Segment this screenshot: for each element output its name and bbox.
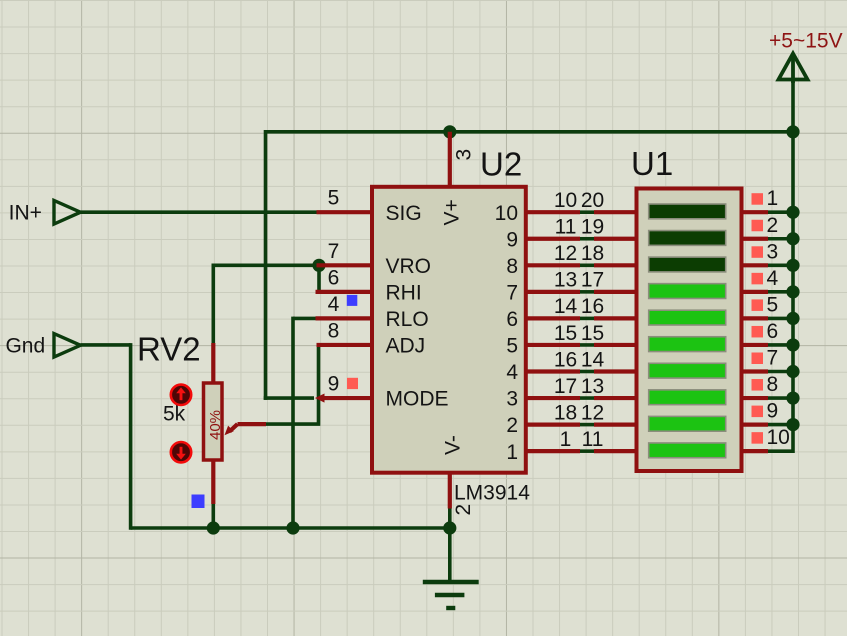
LED segment 2: [649, 231, 726, 246]
marker square blue at pin 4: [347, 295, 358, 306]
wire U2 pin row 1 to bargraph: [580, 210, 594, 214]
wire bargraph right pin 1 to rail: [768, 210, 793, 214]
wire U2 pin row 2 to bargraph: [580, 237, 594, 241]
junction dot right rail row 7: [786, 365, 799, 378]
svg-text:RV2: RV2: [137, 331, 201, 368]
wire bottom ground rail: [131, 526, 450, 530]
bargraph left pin 16 stub: [594, 316, 639, 320]
svg-text:6: 6: [506, 308, 518, 331]
svg-text:VRO: VRO: [386, 255, 432, 278]
svg-text:4: 4: [767, 267, 779, 290]
svg-text:V+: V+: [441, 199, 464, 225]
wire bargraph right pin 3 to rail: [768, 263, 793, 267]
pin L2 output stub: [526, 423, 580, 427]
junction dot right rail row 5: [786, 312, 799, 325]
wire vertical from top rail down to MODE row: [264, 130, 268, 400]
RV2 decrement button: [171, 442, 191, 462]
pin 3 V+ stub: [448, 132, 452, 187]
LED segment 6: [649, 337, 726, 352]
pin 5 SIG stub: [317, 210, 373, 214]
wire U2 pin row 8 to bargraph: [580, 396, 594, 400]
svg-text:9: 9: [328, 373, 340, 396]
svg-text:14: 14: [581, 348, 605, 371]
svg-text:Gnd: Gnd: [5, 335, 45, 358]
bargraph left pin 11 stub: [594, 449, 639, 453]
svg-text:2: 2: [452, 504, 475, 516]
bargraph left pin 19 stub: [594, 237, 639, 241]
svg-text:1: 1: [767, 187, 779, 210]
wire IN+ to SIG: [81, 210, 317, 214]
wire Gnd terminal to corner: [81, 343, 131, 347]
svg-text:U2: U2: [480, 146, 522, 183]
wire bargraph right pin 4 to rail: [768, 290, 793, 294]
pin 9 MODE stub with arrow: [322, 396, 372, 400]
svg-text:12: 12: [554, 242, 577, 265]
svg-text:10: 10: [554, 189, 577, 212]
svg-text:40%: 40%: [207, 410, 224, 440]
wire U2 pin row 10 to bargraph: [580, 449, 594, 453]
junction dot right rail row 1: [786, 206, 799, 219]
wire U2 pin row 6 to bargraph: [580, 343, 594, 347]
svg-text:18: 18: [581, 242, 604, 265]
marker square red at pin 9: [347, 378, 358, 389]
svg-text:9: 9: [506, 228, 518, 251]
wire left vertical Gnd down to bottom rail: [129, 343, 133, 530]
svg-text:6: 6: [767, 320, 779, 343]
svg-text:9: 9: [767, 400, 779, 423]
svg-text:IN+: IN+: [9, 202, 42, 225]
wire pot column vertical down to pot top pin: [212, 264, 216, 344]
junction dot right rail row 2: [786, 232, 799, 245]
bargraph right pin 7 stub: [742, 369, 769, 373]
pin L1 output stub: [526, 449, 580, 453]
svg-text:12: 12: [581, 401, 604, 424]
svg-text:+5~15V: +5~15V: [769, 29, 843, 52]
resistor RV2 body: [204, 383, 223, 460]
pin L10 output stub: [526, 210, 580, 214]
bargraph right pin 10 stub: [742, 449, 769, 453]
svg-text:6: 6: [328, 266, 340, 289]
RV2 top pin stub: [211, 343, 215, 383]
wire U2 pin row 4 to bargraph: [580, 290, 594, 294]
svg-text:4: 4: [328, 293, 340, 316]
wire right power rail vertical: [791, 81, 795, 453]
ground symbol: [423, 582, 479, 608]
wire VRO-RHI jog: [317, 265, 321, 292]
wire RLO stub link: [293, 317, 316, 321]
marker square pin 3: [752, 246, 764, 257]
svg-text:14: 14: [554, 295, 578, 318]
svg-text:5: 5: [328, 187, 340, 210]
svg-text:LM3914: LM3914: [454, 482, 530, 505]
terminal Gnd: [54, 334, 81, 357]
pin 4 RLO stub: [316, 316, 373, 320]
svg-text:7: 7: [506, 281, 518, 304]
svg-text:10: 10: [495, 202, 518, 225]
pin L8 output stub: [526, 263, 580, 267]
svg-text:8: 8: [328, 319, 340, 342]
svg-text:19: 19: [581, 216, 604, 239]
bargraph right pin 8 stub: [742, 396, 769, 400]
svg-text:20: 20: [581, 189, 604, 212]
svg-text:MODE: MODE: [386, 388, 449, 411]
svg-text:8: 8: [506, 255, 518, 278]
svg-text:V-: V-: [442, 435, 465, 455]
bargraph left pin 13 stub: [594, 396, 639, 400]
svg-text:5: 5: [506, 335, 518, 358]
RV2 wiper arrow: [225, 424, 267, 435]
marker square pin 8: [752, 379, 764, 391]
bargraph left pin 14 stub: [594, 369, 639, 373]
junction dot right rail row 9: [786, 418, 799, 431]
junction dot right rail row 3: [786, 259, 799, 272]
marker square pin 10: [752, 432, 764, 444]
marker square pin 9: [752, 406, 764, 418]
LED segment 8: [649, 390, 726, 405]
pin L4 output stub: [526, 369, 580, 373]
wire bargraph right pin 2 to rail: [768, 237, 793, 241]
pin L7 output stub: [526, 290, 580, 294]
bargraph left pin 12 stub: [594, 423, 639, 427]
svg-text:1: 1: [560, 428, 572, 451]
LED segment 10: [649, 443, 726, 458]
junction dot right rail row 4: [786, 285, 799, 298]
pin 2 V- stub: [448, 473, 452, 509]
pin L5 output stub: [526, 343, 580, 347]
bargraph left pin 15 stub: [594, 343, 639, 347]
wire MODE link horizontal: [264, 396, 314, 400]
pin 7 VRO stub: [317, 263, 373, 267]
bargraph left pin 20 stub: [594, 210, 639, 214]
svg-text:5: 5: [767, 293, 779, 316]
wire U2 pin row 3 to bargraph: [580, 263, 594, 267]
svg-text:15: 15: [554, 322, 577, 345]
bargraph right pin 2 stub: [742, 237, 769, 241]
junction dot VRO node: [312, 259, 325, 272]
marker square pin 5: [752, 299, 764, 311]
svg-text:ADJ: ADJ: [386, 335, 426, 358]
marker square pin 4: [752, 273, 764, 285]
junction dot right rail row 8: [786, 391, 799, 404]
svg-text:3: 3: [453, 149, 476, 161]
wire U2 pin row 5 to bargraph: [580, 317, 594, 321]
wire bargraph right pin 9 to rail: [768, 423, 793, 427]
RV2 bottom pin stub: [211, 461, 215, 505]
svg-text:2: 2: [767, 214, 779, 237]
bargraph right pin 4 stub: [742, 290, 769, 294]
marker square pin 6: [752, 326, 764, 338]
junction dot pot bottom on rail: [207, 521, 220, 534]
junction dot top rail / pin3: [443, 125, 456, 138]
bargraph left pin 17 stub: [594, 290, 639, 294]
LED segment 3: [649, 257, 726, 272]
LED segment 9: [649, 416, 726, 431]
op-amp U2 LM3914 body: [372, 187, 526, 473]
svg-text:7: 7: [767, 347, 779, 370]
power terminal +5~15V arrow: [779, 54, 808, 84]
pin L6 output stub: [526, 316, 580, 320]
wire V- pin to bottom rail: [448, 508, 452, 528]
LED segment 5: [649, 310, 726, 325]
wire bargraph right pin 10 to rail: [768, 449, 793, 453]
svg-text:2: 2: [506, 414, 518, 437]
svg-text:3: 3: [506, 388, 518, 411]
pin 8 ADJ stub: [317, 343, 373, 347]
svg-text:18: 18: [554, 401, 577, 424]
wire bargraph right pin 5 to rail: [768, 317, 793, 321]
marker square pin 2: [752, 220, 764, 232]
svg-text:16: 16: [554, 348, 577, 371]
wire VRO to pot column: [213, 263, 319, 267]
svg-text:7: 7: [328, 240, 340, 263]
LED segment 1: [649, 204, 726, 219]
junction dot RLO on rail: [286, 521, 299, 534]
svg-text:17: 17: [581, 269, 604, 292]
bargraph right pin 5 stub: [742, 316, 769, 320]
wire pot bottom pin to bottom rail: [212, 504, 216, 528]
bargraph right pin 1 stub: [742, 210, 769, 214]
svg-text:U1: U1: [631, 145, 673, 182]
svg-text:4: 4: [506, 361, 518, 384]
wire top power rail: [266, 130, 794, 134]
marker square pin 7: [752, 353, 764, 365]
terminal IN+: [54, 201, 81, 225]
junction dot right rail row 6: [786, 338, 799, 351]
LED segment 4: [649, 284, 726, 299]
svg-text:15: 15: [581, 322, 604, 345]
svg-text:SIG: SIG: [386, 202, 422, 225]
bargraph right pin 6 stub: [742, 343, 769, 347]
RV2 increment button: [171, 385, 191, 405]
svg-text:13: 13: [554, 269, 577, 292]
wire bargraph right pin 8 to rail: [768, 396, 793, 400]
bargraph right pin 3 stub: [742, 263, 769, 267]
wire U2 pin row 9 to bargraph: [580, 423, 594, 427]
svg-text:RHI: RHI: [386, 281, 422, 304]
svg-text:13: 13: [581, 375, 604, 398]
svg-text:16: 16: [581, 295, 604, 318]
svg-text:17: 17: [554, 375, 577, 398]
bargraph left pin 18 stub: [594, 263, 639, 267]
svg-text:3: 3: [767, 240, 779, 263]
wire bargraph right pin 6 to rail: [768, 343, 793, 347]
junction dot top rail / right rail: [786, 125, 799, 138]
wire RLO vertical down to bottom rail: [291, 317, 295, 528]
svg-text:1: 1: [506, 441, 518, 464]
wire bottom rail to ground symbol: [448, 528, 452, 582]
marker square blue at pot bottom: [192, 495, 205, 509]
pin 6 RHI stub: [316, 290, 373, 294]
svg-text:11: 11: [555, 216, 577, 239]
svg-text:RLO: RLO: [386, 308, 429, 331]
LED segment 7: [649, 363, 726, 378]
wire ADJ corner down to wiper row: [266, 345, 319, 424]
svg-text:8: 8: [767, 373, 779, 396]
svg-text:11: 11: [582, 428, 604, 451]
LED bargraph U1 body: [637, 189, 742, 472]
svg-text:10: 10: [767, 426, 790, 449]
wire U2 pin row 7 to bargraph: [580, 370, 594, 374]
junction dot V- on rail: [443, 521, 456, 534]
wire bargraph right pin 7 to rail: [768, 370, 793, 374]
pin L9 output stub: [526, 237, 580, 241]
bargraph right pin 9 stub: [742, 423, 769, 427]
marker square pin 1: [752, 193, 764, 205]
pin L3 output stub: [526, 396, 580, 400]
